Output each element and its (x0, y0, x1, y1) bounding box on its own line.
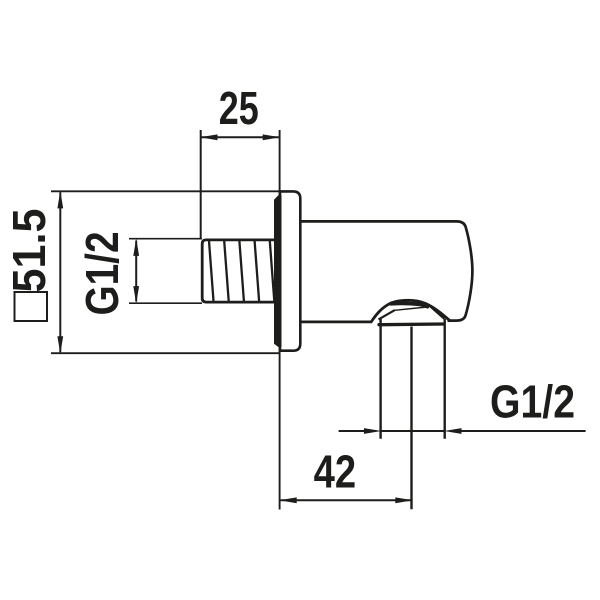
outlet G1/2 left arrowhead (pointing right) (364, 428, 382, 434)
outlet dome inner lip line (395, 307, 427, 310)
outlet centerline (410, 327, 412, 510)
thread hatch line 4 (255, 241, 260, 301)
dimension 51.5 top extension line (51, 190, 279, 192)
thread hatch line 1 (209, 241, 214, 301)
dimension 42 right arrowhead (395, 497, 413, 503)
dimension 25 left arrowhead (200, 134, 218, 140)
thread G1/2 top extension line (129, 238, 202, 240)
outlet right extension line (444, 319, 446, 439)
escutcheon flange outline (280, 191, 300, 350)
dimension 25 right arrowhead (263, 134, 281, 140)
dimension 25 left extension line (200, 130, 202, 239)
svg-text:42: 42 (314, 446, 357, 498)
outlet dome outer curve (371, 300, 450, 322)
dimension 51.5 square symbol (15, 292, 48, 321)
outlet left extension line (379, 319, 381, 439)
svg-text:51.5: 51.5 (3, 209, 55, 293)
dimension 51.5 bottom arrowhead (57, 336, 63, 354)
thread hatch line 2 (224, 241, 229, 301)
outlet dome inner left slope (379, 310, 395, 319)
svg-text:25: 25 (219, 82, 259, 134)
dimension 42 line (281, 499, 412, 501)
dimension 25 right extension line (continues down as wall face / 42 extension) (279, 130, 281, 510)
outlet dome inner right slope (430, 306, 444, 318)
thread hatch line 5 (270, 241, 275, 301)
thread G1/2 bottom arrowhead (133, 286, 139, 304)
escutcheon flange thick wall-side edge (274, 195, 282, 347)
dimension 51.5 line (59, 192, 61, 352)
svg-text:G1/2: G1/2 (490, 375, 575, 427)
dimension 51.5 bottom extension line (51, 352, 280, 354)
thread G1/2 top arrowhead (133, 238, 139, 256)
outlet G1/2 left leader line (339, 430, 364, 432)
body cylinder bottom line (301, 320, 372, 323)
svg-text:G1/2: G1/2 (76, 232, 128, 316)
outlet G1/2 middle line (381, 430, 445, 432)
outlet dome dark crest (thick under-arc band) (391, 303, 428, 306)
dimension 42 left arrowhead (279, 497, 297, 503)
wall thread body (hatched rectangle) (202, 240, 277, 302)
outlet G1/2 right leader line (462, 430, 586, 432)
thread G1/2 dimension line (135, 241, 137, 302)
dimension 25 line (202, 136, 279, 138)
body cylinder outline (top, right cap, bottom-right) (301, 221, 472, 320)
thread G1/2 bottom extension line (129, 302, 202, 304)
thread hatch line 3 (239, 241, 244, 301)
dimension 51.5 top arrowhead (57, 191, 63, 209)
outlet G1/2 right arrowhead (pointing left) (444, 428, 462, 434)
outlet bottom edge (379, 322, 444, 326)
